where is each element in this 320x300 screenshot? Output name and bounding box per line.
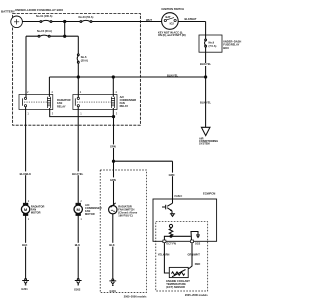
svg-text:(7.5 A): (7.5 A) [209, 44, 217, 48]
wire relay2 contact down to motor [77, 107, 79, 203]
label BLK switch bus [109, 243, 117, 247]
battery B1 [11, 16, 23, 28]
label BLK left bus [22, 243, 30, 247]
transistor Q1 in ECM [162, 203, 173, 213]
under-dash fuse/relay box [199, 35, 222, 52]
svg-text:BAT: BAT [166, 15, 172, 19]
ECT sensor box [169, 267, 188, 277]
svg-text:BLK/WHT: BLK/WHT [185, 17, 197, 21]
svg-text:MOTOR: MOTOR [85, 212, 95, 216]
dashed box 2005-2006 (ECM internals + ECT sensor) [156, 222, 208, 291]
wire YEL/GRN ECT sensor left [164, 243, 169, 273]
svg-text:No.15 (20 A): No.15 (20 A) [37, 29, 52, 33]
svg-text:GRN: GRN [110, 145, 116, 149]
pin ECT [163, 240, 166, 243]
relay K1 radiator fan relay box [19, 95, 53, 110]
wire node A down [64, 22, 66, 37]
label BLU/BLK [19, 171, 33, 175]
svg-text:SG2: SG2 [195, 242, 201, 246]
label GRN ECM drop [168, 173, 176, 177]
label BLK mid bus [74, 243, 82, 247]
svg-text:FAN C: FAN C [175, 194, 183, 198]
svg-text:BLK/YEL: BLK/YEL [200, 101, 212, 105]
svg-text:BLK: BLK [75, 243, 80, 247]
wire relay1 coil top [48, 77, 50, 97]
comparator bracket [191, 232, 198, 241]
radiator fan switch SW2 [109, 203, 117, 214]
svg-text:IG2: IG2 [170, 22, 175, 26]
a/c condenser fan motor M2 [74, 203, 82, 216]
ground G202 [75, 279, 82, 285]
wire motor2 to ground [77, 216, 79, 279]
svg-text:BLK/YEL: BLK/YEL [167, 74, 179, 78]
wire relay2 coil bottom [112, 108, 114, 117]
svg-text:ECT FN: ECT FN [167, 242, 176, 246]
pin SG2 [191, 240, 194, 243]
fuse No.31 (100A) [40, 20, 52, 22]
wire relay2 coil top [112, 77, 114, 97]
relay K1 coil [47, 97, 50, 108]
wire left bus to relay1 [25, 36, 27, 97]
node junction y77 right bus [205, 76, 207, 78]
svg-text:RELAY: RELAY [120, 104, 129, 108]
wire GRN to fan switch [113, 161, 115, 205]
ground ECM transistor [170, 214, 175, 217]
relay K2 a/c condenser fan relay box [73, 95, 117, 110]
svg-text:2005–2006 models: 2005–2006 models [185, 293, 208, 297]
wire right corner down to vertical fuse [77, 36, 79, 54]
svg-text:BLU/YEL: BLU/YEL [72, 172, 84, 176]
svg-text:BATTERY: BATTERY [1, 10, 15, 14]
wire GRN down to node [113, 117, 115, 162]
wire to comparator [171, 235, 191, 237]
wire relay1 contact down to motor [25, 107, 27, 203]
wire motor1 to ground [25, 216, 27, 279]
node resistor junction [170, 235, 172, 237]
svg-text:RED: RED [195, 262, 201, 266]
node coil bottoms junction [112, 116, 114, 118]
connector triangle A/C [201, 127, 210, 135]
fuse No.9 (7.5A) [205, 35, 207, 127]
relay K1 contact blade [21, 98, 23, 105]
svg-text:BLK: BLK [109, 243, 114, 247]
node B junction [64, 35, 66, 37]
fuse No.23 (50A) [80, 20, 92, 22]
wire fuse to relay2 contact [77, 63, 79, 97]
ground G201 [22, 279, 29, 285]
reference voltage node circle [169, 224, 172, 227]
label GRN inside box1 [109, 177, 117, 181]
relay K2 link dashed [77, 101, 111, 103]
wire fan switch to ground [112, 214, 114, 279]
svg-text:GRN/WHT: GRN/WHT [188, 253, 201, 257]
svg-text:BLK/YEL: BLK/YEL [200, 62, 212, 66]
node junction y77 fuse bus [77, 76, 79, 78]
fuse No.15 (20A) [38, 35, 50, 37]
svg-text:SYSTEM: SYSTEM [199, 142, 210, 146]
svg-text:No.31 (100 A): No.31 (100 A) [36, 14, 52, 18]
svg-text:G101: G101 [110, 289, 117, 293]
wire main bus top [22, 21, 205, 23]
ignition switch SW1 [162, 13, 179, 30]
svg-text:ON (II), and START (III): ON (II), and START (III) [158, 33, 186, 37]
radiator fan motor M1 [21, 203, 29, 216]
wire relay1 coil bottom jog [50, 108, 114, 117]
under-hood fuse/relay box [13, 14, 141, 126]
wire GRN to ECM [114, 161, 173, 203]
dashed box 2005-2006 (radiator fan switch) [100, 170, 146, 293]
svg-text:G201: G201 [21, 287, 28, 291]
svg-text:WHT: WHT [146, 18, 152, 22]
svg-text:196°F/91°C): 196°F/91°C) [118, 213, 132, 217]
wire ign to right corner down [205, 22, 207, 36]
ground G101 [109, 279, 116, 285]
wire horizontal y77 [49, 76, 205, 78]
node junction y77 relay2 coil [112, 76, 114, 78]
svg-text:2005–2006 models: 2005–2006 models [124, 294, 147, 298]
wire fuse row y36 [26, 35, 78, 37]
svg-text:RELAY: RELAY [57, 104, 66, 108]
svg-text:UNDER–HOOD FUSE/RELAY BOX: UNDER–HOOD FUSE/RELAY BOX [15, 8, 63, 12]
relay K1 contact pads [24, 97, 26, 99]
relay K2 coil [111, 97, 114, 108]
svg-text:(20 A): (20 A) [81, 58, 88, 62]
wire GRN/WHT ECT sensor right [188, 243, 192, 269]
node GRN junction [112, 160, 114, 162]
relay K1 link dashed [24, 101, 47, 103]
relay K2 contact pads [77, 97, 79, 99]
label GRN above box1 [109, 144, 117, 148]
label BLU/YEL [72, 171, 86, 175]
svg-text:IGNITION SWITCH: IGNITION SWITCH [162, 7, 185, 11]
svg-text:BLK: BLK [22, 243, 27, 247]
resistor R in ECM [169, 228, 173, 237]
ground comparator [196, 235, 200, 237]
node A junction [64, 20, 66, 22]
svg-text:ECM/PCM: ECM/PCM [203, 192, 215, 196]
relay K2 contact blade [74, 98, 76, 105]
svg-text:No.23 (50 A): No.23 (50 A) [79, 15, 94, 19]
svg-text:YEL/GRN: YEL/GRN [158, 253, 170, 257]
thermistor ECT [172, 272, 185, 275]
svg-text:BLU/BLK: BLU/BLK [20, 172, 32, 176]
svg-text:BOX: BOX [223, 46, 229, 50]
svg-text:GRN: GRN [110, 178, 116, 182]
svg-text:G202: G202 [74, 288, 81, 292]
ECM/PCM box [153, 199, 217, 241]
svg-text:(ECT) SENSOR: (ECT) SENSOR [166, 285, 185, 289]
svg-text:MOTOR: MOTOR [31, 211, 41, 215]
wire to ECT pin [164, 236, 171, 240]
svg-text:GRN: GRN [169, 173, 175, 177]
fuse No.6 (20A) vertical [77, 54, 79, 63]
